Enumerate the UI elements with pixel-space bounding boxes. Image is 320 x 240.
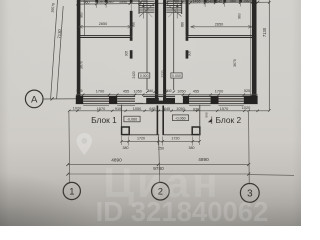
porch party wall lines xyxy=(157,106,163,135)
staircase block2 break + arrow xyxy=(166,3,181,16)
window1 block1 glazing xyxy=(83,99,109,102)
staircase block1 treads xyxy=(139,1,154,12)
watermark pin logo xyxy=(77,133,93,155)
right outer dim line 7130 xyxy=(268,0,270,111)
svg-text:ID 321840062: ID 321840062 xyxy=(96,196,269,226)
texts above bottom wall xyxy=(76,89,250,94)
porch block1 bottom edge xyxy=(129,134,159,136)
wall: party wall left leaf xyxy=(155,0,158,98)
window2 block2 glazing xyxy=(219,99,244,102)
block1 interior vertical wall xyxy=(130,0,133,3)
axis circle 3 xyxy=(240,184,259,203)
elevation box -0.060 block1 xyxy=(124,116,140,122)
porch block1 left edge xyxy=(121,105,123,127)
left outer dim line 1 (slanted, photo skew) xyxy=(51,0,58,99)
porch block2 pier square xyxy=(192,127,200,135)
bottom wall outline top edge xyxy=(77,95,258,97)
wall: block1 west outer wall xyxy=(77,0,81,104)
porch dim leaders xyxy=(122,129,200,146)
door gap block2 threshold xyxy=(175,102,183,104)
axis A line xyxy=(43,98,97,100)
axis A tick xyxy=(51,97,54,100)
porch dim line xyxy=(122,140,200,142)
dim 2650 block1 xyxy=(79,26,132,28)
staircase block1 edges xyxy=(138,0,140,14)
dim line 9780 xyxy=(68,174,294,175)
axis circle 2 xyxy=(152,182,170,200)
axis leader 3 xyxy=(248,112,251,184)
elevation box 0.000 block2 xyxy=(171,73,182,78)
dim line below bottom wall xyxy=(69,110,269,112)
level flag before Блок 2 xyxy=(209,117,212,125)
window1 block2 glazing xyxy=(189,99,211,102)
elevation box 0.000 block1 xyxy=(139,73,150,78)
block2 interior horizontal wall xyxy=(186,36,252,38)
window2 block1 glazing xyxy=(117,99,135,102)
staircase block1 break + arrow xyxy=(139,3,154,16)
dim line above bottom wall xyxy=(76,94,258,96)
texts below bottom wall xyxy=(73,106,250,112)
staircase block2 treads xyxy=(166,1,181,12)
left wall inner face line xyxy=(83,0,85,36)
bottom wall outline bottom edge xyxy=(76,103,258,105)
axis A circle xyxy=(25,90,43,108)
540 ticks near party wall xyxy=(146,91,175,93)
block1 interior horizontal wall xyxy=(78,36,133,38)
axis leader 1 xyxy=(68,112,71,184)
porch block1 pier square xyxy=(122,127,130,135)
top dim ticks xyxy=(76,1,259,6)
door gap block1 threshold xyxy=(135,102,143,104)
wall: block2 east outer wall xyxy=(252,0,257,104)
bottom wall piers (solid) xyxy=(76,96,83,104)
axis circle 1 xyxy=(63,182,80,199)
elevation box -0.060 block2 xyxy=(172,115,188,121)
left outer dim line 2 xyxy=(57,6,64,99)
window sill lines xyxy=(83,104,244,106)
dim 2650 block2 xyxy=(191,26,253,28)
top leader stubs xyxy=(97,3,241,8)
porch block2 bottom edge xyxy=(162,134,192,136)
top dimension line xyxy=(78,2,270,4)
porch block2 right edge xyxy=(199,105,201,127)
party wall footing xyxy=(146,98,175,104)
footing white slot xyxy=(159,98,163,101)
staircase block2 edges xyxy=(181,0,183,14)
top wall edge line with pier blobs xyxy=(80,0,252,2)
wall: party wall right leaf xyxy=(163,0,166,98)
top dim row texts xyxy=(84,0,250,4)
block2 interior vertical wall xyxy=(186,0,189,36)
right wall inner face line xyxy=(250,0,252,96)
dim line 4890 pair xyxy=(68,163,249,165)
axis leader 2 xyxy=(159,135,160,183)
